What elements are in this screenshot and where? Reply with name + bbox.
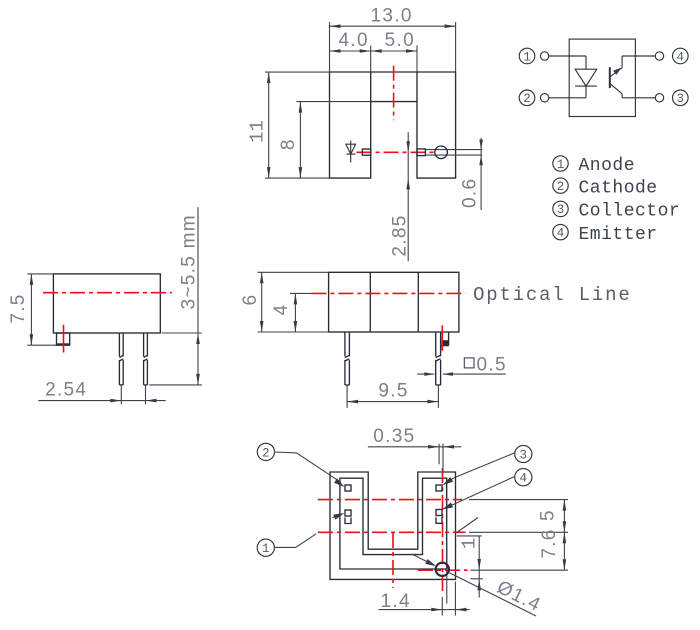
legend item 2 Cathode [553,178,658,198]
dimension square 0.5 pin section [417,355,507,376]
circled pin number 1 [519,48,535,64]
svg-text:1: 1 [459,538,481,549]
middle view body [329,272,459,332]
svg-text:9.5: 9.5 [378,380,408,401]
dimension 4.0 / 5.0 [330,30,418,72]
hole circle [436,563,449,576]
optical axis red centerline side view [43,292,172,294]
svg-text:5.0: 5.0 [385,30,415,51]
svg-text:4: 4 [677,50,685,64]
svg-text:2.85: 2.85 [390,214,411,256]
svg-text:8: 8 [278,138,299,150]
svg-text:Cathode: Cathode [579,178,658,198]
dimension 4 [271,293,312,332]
pin 4 terminal circle [655,52,663,60]
tab thick bottom [57,343,70,345]
svg-text:7.6: 7.6 [539,528,560,558]
bottom view outer U outline [330,472,456,579]
row2 extension line [469,531,568,533]
svg-text:0.5: 0.5 [477,355,507,376]
dimension 0.35 [368,426,461,472]
tab on right pin [441,332,449,346]
pin 3 square (upper right) [436,485,442,491]
svg-text:6: 6 [240,294,261,306]
pin 3 terminal circle [655,94,663,102]
dimension 0.6 [460,138,483,210]
svg-text:1: 1 [262,542,270,556]
emitter arrow of Q1 [613,68,621,75]
svg-text:1: 1 [523,50,531,64]
svg-text:1: 1 [557,158,565,172]
pin 4 lower open square [436,517,442,523]
emitter window rectangle on left slot wall [362,149,370,155]
pin 1 square (mid left) [345,510,351,516]
dimension 5 and 7.6 [537,500,566,571]
svg-text:Ø1.4: Ø1.4 [494,577,545,617]
pin 2 square (upper left) [345,485,351,491]
svg-text:11: 11 [247,120,269,143]
circled ref 2 with leader [257,443,344,487]
svg-text:2: 2 [523,92,531,106]
inner right edge extension [446,545,448,604]
svg-text:0.35: 0.35 [373,426,415,447]
svg-text:13.0: 13.0 [371,6,413,27]
dimension 2.54 [38,380,165,405]
svg-text:Collector: Collector [579,202,681,222]
legend item 1 Anode [553,156,635,176]
pin 4 square (mid right) [436,510,442,516]
svg-text:4: 4 [520,472,528,486]
svg-text:Optical Line: Optical Line [473,284,631,306]
svg-text:4.0: 4.0 [339,30,369,51]
middle view divider left [369,272,371,332]
tab center red line middle view [441,325,443,350]
pin 1 wire [549,55,586,57]
svg-text:2: 2 [557,180,565,194]
circled ref 3 with leader [443,445,532,485]
short diagonal at right leg [456,518,478,534]
circled ref 4 with leader [442,469,532,510]
LED diode symbol in left leg [346,141,356,163]
slot center red centerline (vertical) [393,66,395,121]
dimension 8 [278,102,371,179]
svg-text:7.5: 7.5 [8,293,29,323]
front view slot wall divider left [370,72,372,102]
svg-text:3: 3 [520,449,528,463]
svg-text:2.54: 2.54 [45,380,87,401]
side view right pin [144,333,148,385]
dimension 6 [240,272,329,332]
pin row 2 red centerline [318,531,466,533]
dimension 1.4 [379,582,470,616]
dimension 11 [247,72,330,178]
middle view left pin [345,332,350,385]
bottom view inner U outline [340,478,447,569]
dimension 7.5 [8,274,56,345]
pin row 1 red centerline [318,499,462,501]
detector window rectangle on right slot wall [417,149,425,156]
hole center red line horizontal [418,569,468,571]
optocoupler box U1 [569,39,635,116]
aperture slit lines 0.6 [426,149,483,151]
side view mounting tab [57,333,70,345]
svg-text:5: 5 [537,509,558,521]
middle view right pin [436,332,441,385]
legend item 4 Emitter [553,224,658,244]
svg-text:Emitter: Emitter [579,225,658,245]
dimension 13.0 [330,6,456,72]
pin 1 lower open square [345,518,351,524]
phototransistor Q1 inside box [610,56,622,98]
svg-text:1.4: 1.4 [381,591,411,612]
circled pin number 3 [673,90,689,106]
dimension diameter 1.4 leader [412,554,545,616]
sensor hole circle in right leg [435,146,448,159]
legend item 3 Collector [553,201,680,221]
side view body [53,274,160,333]
svg-text:2: 2 [262,446,270,460]
circled pin number 4 [673,48,689,64]
pin 4 wire [622,55,655,57]
svg-text:3: 3 [677,92,685,106]
svg-text:4: 4 [271,303,292,315]
side view left pin [119,333,123,385]
dimension 1 [457,536,483,598]
circled ref 1 with leader [257,513,344,556]
svg-text:3: 3 [557,203,565,217]
LED D1 inside box [575,56,597,98]
svg-text:3~5.5 mm: 3~5.5 mm [178,214,199,309]
front view slot wall divider right [416,72,418,102]
row1 extension line [469,499,568,501]
hole center extension line [471,569,569,571]
circled pin number 2 [519,90,535,106]
pin 1 terminal circle [540,52,548,60]
svg-text:Anode: Anode [579,156,636,176]
optical axis red centerline (horizontal) [357,151,434,153]
pin 2 terminal circle [540,94,548,102]
svg-text:0.6: 0.6 [460,178,481,208]
optical line red centerline [311,292,465,294]
tab center red line side view [63,325,65,353]
slot center red line vertical [392,533,394,588]
hole center red line vertical [442,468,444,595]
dimension 3~5.5 mm [149,207,202,385]
dimension 9.5 [347,380,438,408]
pin 3 wire [622,97,655,99]
dimension 2.85 [390,132,411,261]
pin 2 wire [549,97,586,99]
svg-text:4: 4 [557,226,565,240]
front view body outline [330,72,456,178]
middle view divider right [417,272,419,332]
